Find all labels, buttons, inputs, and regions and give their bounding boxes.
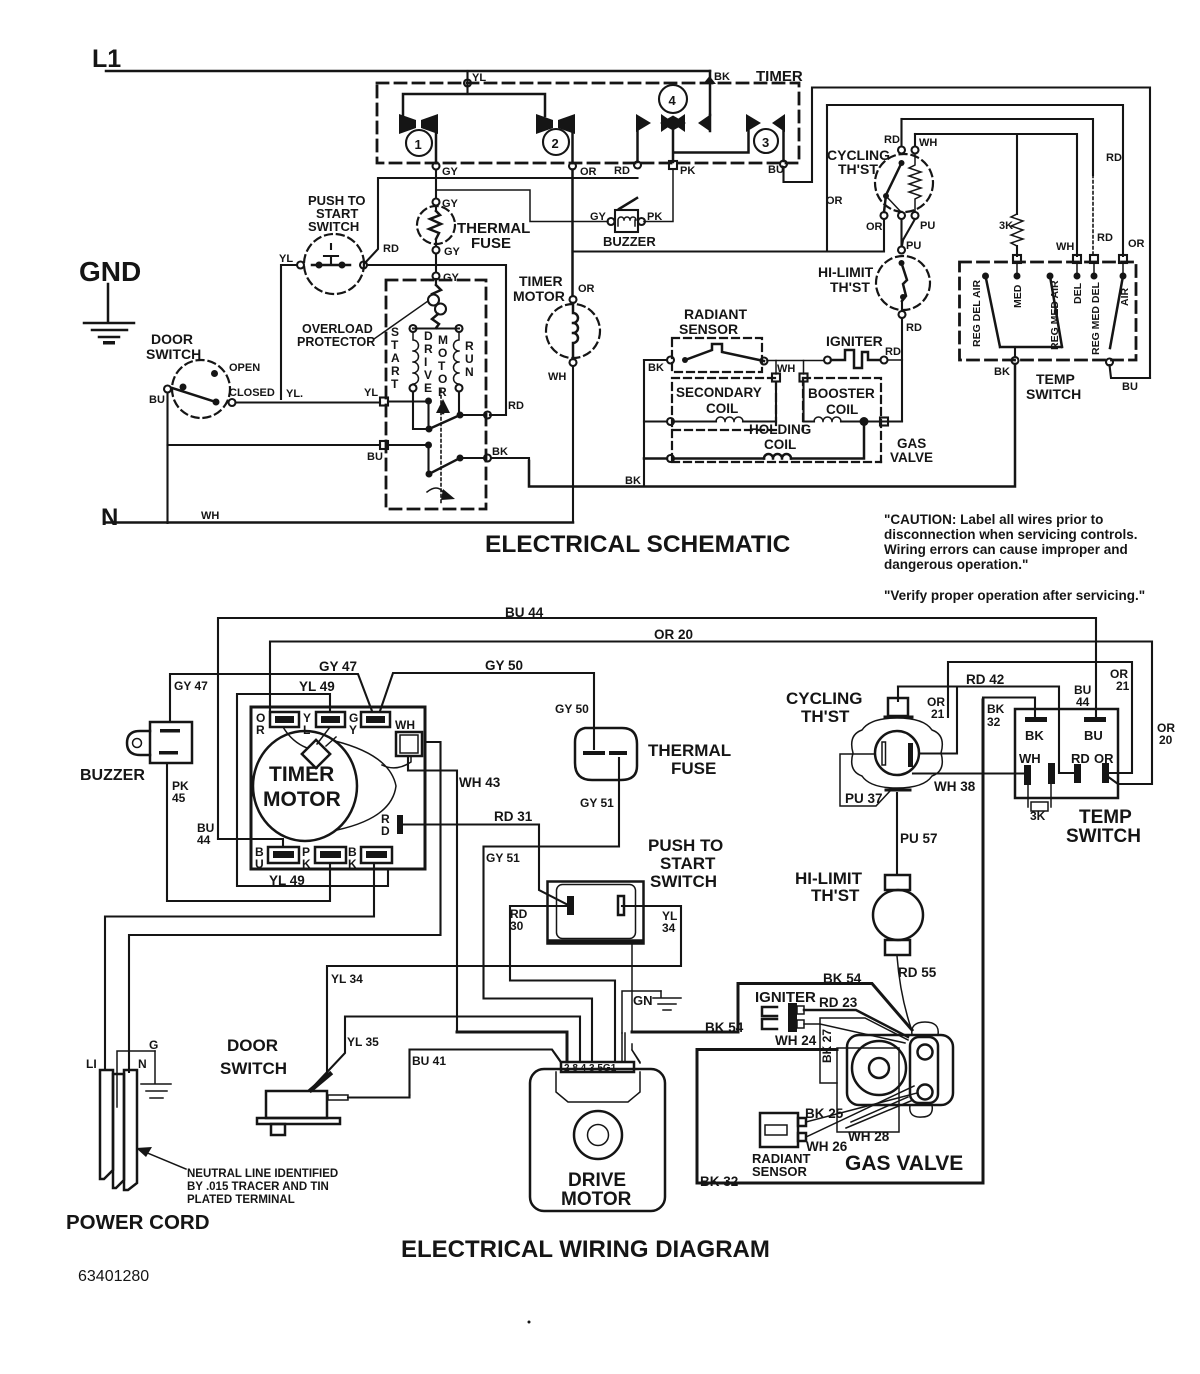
svg-text:DOOR: DOOR [227, 1036, 278, 1055]
svg-text:TEMP: TEMP [1079, 807, 1132, 828]
svg-text:TEMP: TEMP [1036, 371, 1075, 387]
svg-text:32: 32 [987, 715, 1001, 729]
svg-text:GY 47: GY 47 [174, 679, 208, 693]
buzzer flange [127, 731, 150, 755]
push-start right bar [618, 896, 624, 915]
node motor RD [484, 412, 491, 419]
svg-text:44: 44 [1076, 695, 1090, 709]
svg-text:GY 51: GY 51 [580, 796, 614, 810]
svg-text:BU: BU [768, 164, 784, 176]
node timer motor WH [570, 359, 577, 366]
svg-text:PLATED TERMINAL: PLATED TERMINAL [187, 1194, 295, 1206]
svg-text:OR: OR [578, 283, 595, 295]
wire YL 34 [313, 906, 681, 1088]
power cord N pocket [117, 1051, 155, 1107]
wire GY into motor [435, 279, 437, 285]
wire GY 51 [484, 758, 620, 1062]
svg-text:E: E [424, 381, 432, 395]
svg-text:YL 34: YL 34 [331, 972, 363, 986]
svg-text:MOTOR: MOTOR [513, 288, 565, 304]
door switch leg [271, 1124, 285, 1135]
thermal fuse bars [583, 751, 605, 755]
svg-text:COIL: COIL [764, 437, 796, 452]
svg-text:RD: RD [508, 400, 524, 412]
svg-text:GY: GY [443, 272, 460, 284]
svg-text:N: N [465, 365, 474, 379]
svg-text:R: R [391, 364, 400, 378]
svg-text:D: D [381, 824, 390, 838]
svg-text:RD: RD [1106, 152, 1122, 164]
svg-text:COIL: COIL [826, 402, 858, 417]
svg-text:OR: OR [580, 166, 597, 178]
svg-text:GY 50: GY 50 [485, 658, 523, 673]
svg-text:GY 50: GY 50 [555, 702, 589, 716]
svg-text:A: A [391, 351, 400, 365]
svg-text:S: S [391, 325, 399, 339]
node YL push-start [297, 262, 304, 269]
svg-text:N: N [101, 504, 118, 531]
svg-text:WH 38: WH 38 [934, 779, 976, 794]
wire PK branch to contact 3 [675, 131, 749, 153]
wire RD 55 [897, 956, 911, 1028]
svg-text:3K: 3K [999, 220, 1013, 232]
gas valve screws [918, 1045, 933, 1060]
wire push-start to motor RD [367, 265, 506, 415]
push-start contacts [316, 262, 323, 269]
wire RD hi-limit to igniter line [901, 318, 903, 360]
node GY3 [433, 247, 440, 254]
wire OR horizontal to cycling [573, 219, 885, 252]
door switch body [266, 1091, 327, 1118]
wire contact1 to GY node [435, 133, 438, 163]
svg-text:HI-LIMIT: HI-LIMIT [818, 264, 874, 280]
svg-text:R: R [438, 385, 447, 399]
svg-text:BU 41: BU 41 [412, 1054, 446, 1068]
svg-text:PROTECTOR: PROTECTOR [297, 335, 375, 349]
svg-text:21: 21 [931, 707, 945, 721]
cycling thst top block [888, 698, 908, 716]
igniter prongs [762, 1007, 777, 1029]
wire BU door to motor [168, 393, 381, 446]
svg-text:SWITCH: SWITCH [1026, 386, 1081, 402]
door switch dashed circle [172, 360, 230, 418]
svg-text:PK: PK [680, 165, 695, 177]
overload pointer line [374, 301, 428, 339]
node hi-limit RD [899, 311, 906, 318]
wire PK 45 [167, 763, 330, 901]
door switch lever [311, 1074, 330, 1090]
svg-text:RD 31: RD 31 [494, 809, 533, 824]
wire OR timer motor [571, 170, 574, 297]
timer motor teardrop [335, 741, 396, 830]
radiant sensor nubs [798, 1118, 806, 1126]
power cord ground [141, 1051, 171, 1098]
secondary coil dashed box [672, 378, 776, 430]
svg-text:GN: GN [633, 993, 653, 1008]
svg-text:RD: RD [614, 165, 630, 177]
svg-text:WH: WH [548, 371, 566, 383]
svg-text:BK 54: BK 54 [705, 1020, 744, 1035]
svg-text:SENSOR: SENSOR [679, 321, 738, 337]
temp switch box [1015, 709, 1118, 798]
svg-text:HOLDING: HOLDING [749, 422, 811, 437]
svg-text:RD: RD [885, 346, 901, 358]
wire igniter to RD vertical [888, 359, 903, 361]
wire YL 35 [314, 1017, 580, 1087]
svg-text:BU: BU [1084, 728, 1103, 743]
node PK square [669, 161, 677, 169]
buzzer hammer [619, 198, 637, 209]
svg-text:21: 21 [1116, 679, 1130, 693]
svg-text:20: 20 [1159, 733, 1173, 747]
radiant sensor dashed box [672, 338, 762, 372]
svg-text:YL 49: YL 49 [299, 679, 335, 694]
svg-text:YL: YL [364, 387, 378, 399]
motor switch BK side [425, 442, 432, 449]
svg-text:1: 1 [415, 137, 422, 152]
svg-text:BU 44: BU 44 [505, 605, 544, 620]
wire PU to hi-limit [902, 219, 916, 246]
wire YL drop to contact bus [466, 71, 468, 94]
svg-text:SWITCH: SWITCH [1066, 826, 1141, 847]
svg-text:R: R [256, 723, 265, 737]
node OR cycling [881, 212, 888, 219]
svg-text:TH'ST: TH'ST [838, 161, 878, 177]
node stray dot [528, 1321, 531, 1324]
node BK triangle on timer border [703, 76, 716, 84]
svg-text:RD: RD [906, 322, 922, 334]
cycling thst bars [882, 742, 886, 765]
svg-text:OPEN: OPEN [229, 362, 260, 374]
svg-text:BK: BK [492, 446, 508, 458]
svg-text:RD 55: RD 55 [898, 965, 937, 980]
svg-text:2 8 4 3 5G1: 2 8 4 3 5G1 [564, 1063, 617, 1074]
svg-text:O: O [438, 346, 447, 360]
svg-text:BK 32: BK 32 [700, 1174, 738, 1189]
svg-text:GY 51: GY 51 [486, 851, 520, 865]
power cord L1 blade [100, 1070, 113, 1179]
svg-text:R: R [424, 342, 433, 356]
wire PU 37 [840, 754, 890, 806]
svg-text:BK 25: BK 25 [805, 1106, 844, 1121]
node GY2 [433, 199, 440, 206]
node motor BU square [380, 441, 388, 449]
wire L1 bus [106, 70, 710, 73]
svg-text:T: T [391, 377, 399, 391]
timer motor circle [253, 731, 357, 841]
motor RUN winding [454, 332, 459, 384]
svg-text:POWER CORD: POWER CORD [66, 1211, 210, 1234]
temp switch blades left [986, 276, 1063, 347]
svg-text:BK 54: BK 54 [823, 971, 862, 986]
wire RD push-start to timer [364, 178, 638, 264]
svg-text:BUZZER: BUZZER [603, 234, 656, 249]
motor START winding [413, 332, 419, 384]
door switch contacts [180, 384, 187, 391]
svg-text:T: T [438, 359, 446, 373]
thermal fuse body [575, 728, 637, 780]
node OR junction [569, 163, 576, 170]
wire OR top bus to temp switch [827, 105, 1123, 256]
motor direction arrow [436, 399, 450, 413]
wire YL 49 loop [237, 694, 388, 886]
timer block PK [315, 847, 346, 863]
svg-text:VALVE: VALVE [890, 450, 933, 465]
svg-text:SECONDARY: SECONDARY [676, 385, 762, 400]
svg-text:PUSH TO: PUSH TO [648, 836, 723, 855]
node GY4 [433, 273, 440, 280]
svg-text:dangerous operation.": dangerous operation." [884, 557, 1028, 572]
svg-text:OR: OR [866, 221, 883, 233]
svg-text:WH 26: WH 26 [806, 1139, 848, 1154]
svg-text:GY: GY [590, 211, 607, 223]
buzzer box [615, 210, 638, 232]
node buzzer GY [608, 218, 615, 225]
wire contact3 to BU node [782, 131, 785, 161]
wire GY 50 [380, 673, 594, 749]
wire WH 24 [804, 1024, 905, 1043]
svg-text:GY: GY [442, 166, 459, 178]
push-start dashed circle [304, 234, 364, 294]
power cord mid blade [113, 1074, 124, 1188]
push-start inner box [557, 885, 636, 939]
node motor BK [484, 455, 491, 462]
svg-text:WH: WH [1019, 751, 1041, 766]
temp switch BK drop [1014, 347, 1016, 357]
svg-text:BK: BK [994, 366, 1010, 378]
wire sensor to igniter [767, 360, 824, 362]
wire drop to booster [803, 361, 805, 375]
wire RD 31 [403, 825, 570, 907]
svg-text:"Verify proper operation after: "Verify proper operation after servicing… [884, 588, 1145, 603]
wire RD top bus to temp switch [902, 119, 1094, 175]
svg-text:MED: MED [1012, 284, 1024, 308]
svg-text:RD: RD [884, 134, 900, 146]
radiant sensor contact [682, 357, 688, 363]
svg-text:OVERLOAD: OVERLOAD [302, 322, 373, 336]
svg-text:30: 30 [510, 919, 524, 933]
svg-text:RD 23: RD 23 [819, 995, 858, 1010]
timer block BU [268, 847, 299, 863]
svg-text:BU: BU [1122, 381, 1138, 393]
svg-text:IGNITER: IGNITER [755, 989, 816, 1006]
svg-text:WH 24: WH 24 [775, 1033, 817, 1048]
svg-text:YL: YL [472, 72, 486, 84]
timer block GY [361, 712, 390, 727]
svg-text:FUSE: FUSE [671, 759, 716, 778]
svg-text:OR: OR [826, 195, 843, 207]
wire AIR to BU [1110, 365, 1151, 378]
svg-text:SWITCH: SWITCH [650, 872, 717, 891]
svg-text:TIMER: TIMER [269, 763, 334, 786]
timer contact 3 [746, 114, 761, 132]
cycling thst dashed outline [875, 154, 933, 212]
hi-limit bottom block [885, 940, 910, 955]
timer contact 4 right arrow (BK) [698, 114, 711, 132]
timer block BK [361, 847, 392, 863]
svg-text:OR 20: OR 20 [654, 627, 693, 642]
motor actuator arrow [427, 488, 443, 492]
wire BK 54 [632, 984, 912, 1033]
gas valve inner rect [837, 1048, 899, 1132]
svg-text:GAS VALVE: GAS VALVE [845, 1152, 963, 1175]
svg-text:WH: WH [395, 718, 415, 732]
cycling thst heater resistor [909, 154, 921, 211]
svg-text:O: O [438, 372, 447, 386]
svg-text:RD 42: RD 42 [966, 672, 1004, 687]
svg-text:PU 57: PU 57 [900, 831, 938, 846]
wire BU 41 [348, 1095, 410, 1098]
gas valve circle [852, 1041, 906, 1095]
svg-text:RD: RD [1097, 232, 1113, 244]
timer contact 4 left arrow [636, 114, 651, 132]
drive motor connector slants [552, 1050, 640, 1063]
svg-text:"CAUTION: Label all wires prio: "CAUTION: Label all wires prior to [884, 512, 1103, 527]
radiant sensor body [760, 1113, 798, 1147]
igniter body [788, 1003, 797, 1032]
wire GY buzzer branch [436, 190, 608, 222]
motor dashed box [386, 280, 486, 509]
motor switch start side [413, 392, 426, 429]
wire WH timer to power cord [129, 742, 441, 1072]
cycling thst blade [899, 160, 905, 166]
wire N line [106, 521, 573, 524]
cycling thst RD node [898, 147, 905, 154]
thermal fuse element [429, 211, 441, 239]
timer contact 1 [399, 114, 416, 134]
wire BK from temp switch to motor [529, 364, 1015, 487]
node cycling PU [912, 212, 919, 219]
svg-text:M: M [438, 333, 448, 347]
svg-text:BK: BK [625, 475, 641, 487]
wire RD vertical to booster [901, 360, 903, 421]
svg-text:LI: LI [86, 1057, 97, 1071]
temp switch 5K resistor [1028, 784, 1051, 807]
wire BK 25 [806, 1093, 917, 1122]
svg-text:DEL: DEL [1072, 282, 1084, 304]
svg-text:DOOR: DOOR [151, 331, 193, 347]
svg-text:SWITCH: SWITCH [220, 1059, 287, 1078]
wire WH 38 [913, 772, 1025, 774]
gas valve bottom hump [910, 1105, 933, 1117]
svg-text:63401280: 63401280 [78, 1268, 149, 1285]
node YL junction on timer top [464, 80, 471, 87]
svg-text:R: R [465, 339, 474, 353]
svg-text:Wiring errors can cause improp: Wiring errors can cause improper and [884, 542, 1128, 557]
svg-text:YL: YL [279, 253, 293, 265]
svg-text:ELECTRICAL SCHEMATIC: ELECTRICAL SCHEMATIC [485, 531, 791, 558]
cycling thst WH node [912, 147, 919, 154]
wire PK buzzer to timer [644, 169, 673, 222]
svg-text:YL.: YL. [286, 388, 303, 400]
node RD junction [634, 162, 641, 169]
svg-text:RADIANT: RADIANT [684, 306, 747, 322]
svg-text:Y: Y [349, 723, 357, 737]
wire RD 42 [898, 687, 1073, 774]
gas valve body [847, 1035, 953, 1105]
node push-start right [360, 262, 367, 269]
svg-text:NEUTRAL LINE IDENTIFIED: NEUTRAL LINE IDENTIFIED [187, 1168, 338, 1180]
svg-text:REG DEL AIR: REG DEL AIR [971, 279, 983, 347]
svg-text:BOOSTER: BOOSTER [808, 386, 875, 401]
svg-text:BU: BU [367, 451, 383, 463]
temp switch top terminals squares [1013, 255, 1021, 263]
wire contact2 to OR node [571, 133, 574, 163]
svg-text:K: K [302, 857, 311, 871]
wire BU 44 main [218, 618, 1096, 839]
node timer motor OR [570, 296, 577, 303]
wire OR left vertical [826, 105, 828, 252]
ground symbol GND [84, 284, 134, 337]
wire BK gas valve left vertical [643, 360, 645, 487]
svg-text:MOTOR: MOTOR [561, 1189, 632, 1210]
svg-text:FUSE: FUSE [471, 235, 511, 252]
svg-text:WH 43: WH 43 [459, 775, 501, 790]
wire WH 28 [846, 1097, 913, 1128]
timer motor lead wires [283, 727, 411, 768]
svg-text:TIMER: TIMER [756, 68, 803, 85]
svg-text:CLOSED: CLOSED [229, 387, 275, 399]
wire PU 57 [896, 793, 898, 875]
wire holding coil [667, 455, 674, 462]
svg-text:BUZZER: BUZZER [80, 767, 145, 784]
timer contact 4 diamond [661, 114, 674, 132]
svg-text:V: V [424, 368, 432, 382]
wire PK from contact4 [672, 131, 675, 162]
wire BU to top right bus [784, 88, 1151, 379]
svg-text:L1: L1 [92, 45, 121, 73]
svg-text:PU: PU [920, 220, 935, 232]
svg-text:disconnection when servicing c: disconnection when servicing controls. [884, 527, 1138, 542]
svg-text:GY 47: GY 47 [319, 659, 357, 674]
gas valve dashed bottom [672, 430, 881, 462]
wire BK out of motor [491, 458, 529, 487]
svg-text:DRIVE: DRIVE [568, 1170, 626, 1191]
timer motor dashed circle [546, 304, 600, 358]
wire RD 30 [510, 906, 615, 1062]
wire BK 27 [820, 1018, 908, 1083]
svg-text:K: K [348, 857, 357, 871]
drive motor shaft circles [574, 1111, 622, 1159]
hi-limit top block [885, 875, 910, 890]
timer box dashed [377, 83, 799, 163]
timer motor cam [302, 740, 330, 768]
push-start outer box [548, 882, 644, 944]
wire OR 21 [898, 687, 948, 702]
svg-text:34: 34 [662, 921, 676, 935]
svg-text:3: 3 [762, 135, 769, 150]
svg-text:YL 49: YL 49 [269, 873, 305, 888]
svg-text:RD: RD [383, 243, 399, 255]
wire WH drop to secondary [775, 361, 777, 375]
svg-text:N: N [138, 1057, 147, 1071]
svg-text:SWITCH: SWITCH [146, 346, 201, 362]
node GY junction [433, 163, 440, 170]
wire YL door to motor [236, 401, 381, 403]
temp switch BU bar [1084, 717, 1106, 722]
svg-text:D: D [424, 329, 433, 343]
node cycling mid [898, 212, 905, 219]
timer block OR [270, 712, 299, 727]
wire BU down to N [166, 445, 168, 523]
push-start left bar [567, 896, 574, 915]
temp switch contact dots [982, 273, 989, 280]
svg-text:CYCLING: CYCLING [786, 689, 863, 708]
temp switch dashed box [960, 262, 1137, 360]
cycling thst circle [875, 731, 919, 775]
svg-text:45: 45 [172, 791, 186, 805]
wire BK drop from L1 to timer contact 4 [709, 71, 712, 115]
